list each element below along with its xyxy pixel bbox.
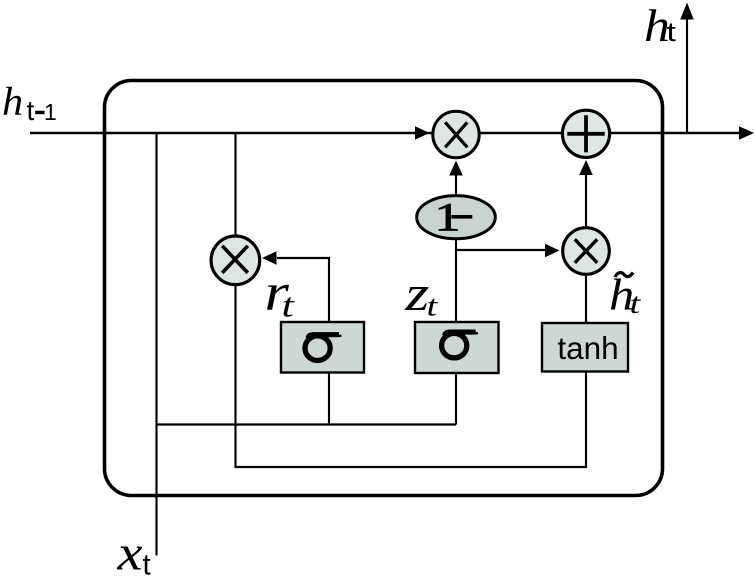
- svg-text:t: t: [143, 549, 151, 578]
- svg-text:z: z: [404, 266, 429, 322]
- svg-text:t: t: [427, 290, 439, 322]
- svg-text:t: t: [27, 95, 35, 126]
- svg-text:t: t: [282, 286, 295, 324]
- svg-text:t: t: [630, 288, 642, 320]
- svg-text:t: t: [667, 17, 677, 47]
- svg-text:h: h: [2, 79, 23, 124]
- svg-text:1: 1: [44, 99, 57, 125]
- svg-text:tanh: tanh: [557, 330, 618, 366]
- svg-text:x: x: [116, 525, 142, 578]
